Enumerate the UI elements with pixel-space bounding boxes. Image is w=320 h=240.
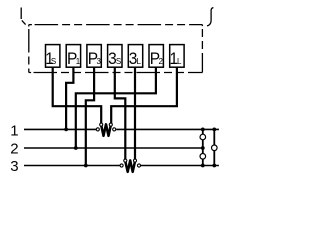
junction P1/line1 [64, 127, 68, 131]
CT W3 secondary terminal left [124, 159, 127, 162]
junction line1/col1 [201, 127, 205, 131]
wire P1 lead [66, 68, 73, 130]
junction line1/col2 [212, 127, 216, 131]
terminal box 3S [108, 45, 122, 68]
wire 1S lead [53, 68, 101, 124]
junction line2/col1 [201, 146, 205, 150]
CT W1 line terminal right [113, 128, 116, 131]
right fuse column 2 [213, 129, 215, 165]
svg-text:3: 3 [10, 158, 18, 175]
wire 1L lead [111, 68, 177, 124]
CT W1 line terminal left [96, 128, 99, 131]
fuse F1 (col1 upper) [200, 134, 206, 140]
svg-text:1: 1 [10, 123, 18, 140]
instrument enclosure lead-in stub (top left) [21, 8, 25, 25]
CT W1 secondary terminal left [100, 123, 103, 126]
junction line3/col1 [201, 164, 205, 168]
CT W1 primary winding [101, 124, 111, 136]
line 1 [24, 128, 219, 130]
line 3 [24, 165, 219, 167]
svg-text:2: 2 [10, 141, 18, 158]
wire 3S lead [115, 68, 126, 160]
CT W3 primary winding [125, 160, 135, 172]
wire 3L lead [134, 68, 136, 160]
CT W3 secondary terminal right [133, 159, 136, 162]
line 2 [24, 147, 203, 149]
terminal box P2 [149, 45, 163, 68]
CT W3 line terminal right [137, 164, 140, 167]
junction P2/line2 [74, 146, 78, 150]
wire P3 lead [86, 68, 94, 166]
terminal box P1 [66, 45, 80, 68]
dashed instrument enclosure [29, 25, 203, 73]
CT W3 line terminal left [120, 164, 123, 167]
terminal box 1L [170, 45, 185, 68]
junction line3/col2 [212, 164, 216, 168]
enclosure hook (top right) [207, 8, 213, 26]
fuse F2 (col1 lower) [200, 154, 206, 160]
terminal box P3 [87, 45, 101, 68]
fuse F3 (col2) [212, 145, 218, 151]
terminal box 1S [45, 45, 60, 68]
wire P2 lead [76, 68, 156, 149]
terminal box 3L [128, 45, 142, 68]
right fuse column 1 [202, 129, 204, 165]
CT W1 secondary terminal right [109, 123, 112, 126]
junction P3/line3 [84, 164, 88, 168]
